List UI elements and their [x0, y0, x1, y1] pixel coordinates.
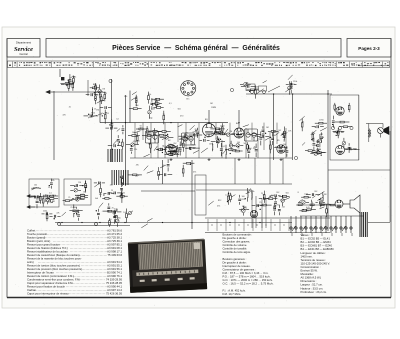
wire — [167, 131, 171, 133]
wire — [283, 136, 285, 141]
wire — [320, 126, 324, 128]
wire — [136, 141, 138, 145]
resistor R37 — [217, 131, 221, 133]
wire — [129, 91, 131, 123]
resistor R36 — [220, 133, 224, 135]
wire — [122, 132, 124, 134]
wire — [191, 162, 194, 164]
wire — [333, 131, 336, 133]
wire — [246, 192, 251, 194]
junction — [170, 152, 171, 153]
wire — [221, 140, 223, 158]
wire — [311, 207, 313, 210]
capacitor C17 — [196, 132, 199, 133]
wire — [312, 139, 314, 142]
svg-text:47k: 47k — [292, 84, 295, 86]
capacitor C91 — [257, 204, 258, 207]
wire — [257, 89, 264, 94]
wire — [111, 193, 114, 195]
svg-text:Pièces Service — Schéma géné: Pièces Service — Schéma général — Généra… — [112, 45, 280, 52]
wire — [42, 195, 44, 198]
wire — [46, 212, 48, 215]
wire — [117, 145, 121, 147]
resistor R18 — [155, 101, 157, 105]
resistor R31 — [150, 144, 152, 148]
wire — [317, 148, 319, 151]
wire — [268, 130, 271, 132]
wire — [368, 221, 390, 223]
scattered value labels — [38, 96, 298, 208]
resistor R48 — [255, 90, 257, 94]
wire — [282, 195, 284, 198]
resistor R82 — [326, 209, 328, 213]
junction — [73, 213, 74, 214]
trimmer C84 — [116, 219, 120, 223]
wire — [276, 132, 279, 135]
junction — [170, 122, 171, 123]
wire — [42, 203, 44, 207]
resistor R54 — [348, 105, 350, 109]
junction — [204, 137, 205, 138]
svg-text:0,1: 0,1 — [280, 199, 283, 201]
wire — [95, 92, 97, 96]
wire — [343, 138, 345, 141]
junction — [99, 94, 100, 95]
resistor R23 — [139, 128, 143, 130]
junction — [321, 154, 322, 155]
wire — [201, 148, 208, 153]
wire — [46, 198, 50, 200]
tube B7 EZ40 — [250, 210, 257, 217]
svg-text:F.M. 10,7 Mc/s.: F.M. 10,7 Mc/s. — [223, 292, 242, 296]
resistor R52 — [319, 122, 323, 124]
wire — [99, 94, 101, 99]
junction — [149, 143, 150, 144]
wire — [323, 202, 325, 204]
resistor R40 — [247, 145, 249, 149]
capacitor C31 — [259, 138, 262, 139]
wire — [337, 128, 339, 131]
wire — [281, 133, 288, 136]
wire — [144, 166, 149, 171]
wire — [348, 126, 352, 128]
trimmer C40 — [216, 140, 220, 144]
wire — [231, 195, 235, 198]
wire — [339, 126, 343, 128]
junction — [249, 91, 250, 92]
wire — [54, 198, 58, 200]
wire — [128, 174, 133, 176]
oscillator box 1 — [29, 179, 59, 207]
trimmer C16 — [165, 136, 169, 140]
wire — [78, 210, 80, 213]
capacitor C83 — [114, 216, 117, 217]
svg-text:1M: 1M — [246, 83, 249, 85]
junction — [140, 127, 141, 128]
wire — [93, 115, 98, 117]
capacitor C20 — [179, 148, 182, 149]
resistor R89 — [158, 171, 160, 175]
wire — [113, 140, 117, 144]
svg-text:A0 1368 (4,5 W.): A0 1368 (4,5 W.) — [301, 276, 322, 280]
wire — [220, 152, 222, 156]
coil L12 — [247, 192, 249, 198]
wire — [149, 114, 151, 118]
wire — [248, 154, 250, 158]
svg-text:O.C. : 16,5 — 52,2 m = 18,2 ..: O.C. : 16,5 — 52,2 m = 18,2 ... 5,75 Mc/… — [223, 282, 274, 286]
capacitor C29 — [280, 146, 281, 149]
wire — [70, 200, 73, 202]
capacitor C64 — [36, 201, 39, 202]
wire — [60, 83, 65, 85]
open junction — [95, 223, 98, 226]
resistor R68 — [121, 194, 123, 198]
capacitor C53 — [313, 144, 316, 145]
resistor R63 — [65, 200, 69, 202]
wire — [225, 145, 227, 150]
svg-text:8: 8 — [298, 192, 299, 194]
wire — [222, 134, 226, 136]
trimmer C63 — [46, 198, 50, 202]
wire — [103, 210, 108, 212]
wire — [288, 75, 293, 80]
junction — [336, 132, 337, 133]
junction — [116, 209, 117, 210]
wire — [301, 127, 303, 131]
resistor R67 — [100, 188, 102, 192]
wire — [172, 147, 174, 149]
resistor R50 — [301, 123, 303, 127]
svg-text:0,1: 0,1 — [49, 192, 52, 194]
wire — [190, 125, 195, 130]
resistor R69 — [120, 195, 124, 197]
wire — [341, 130, 345, 132]
resistor R2 — [100, 97, 102, 101]
junction — [260, 209, 261, 210]
svg-text:A3 997 14.2: A3 997 14.2 — [107, 288, 122, 292]
svg-text:R12: R12 — [242, 199, 245, 201]
junction — [120, 176, 121, 177]
svg-text:75 246 28.05: 75 246 28.05 — [106, 281, 123, 285]
wire — [76, 213, 78, 215]
svg-text:Service: Service — [14, 46, 33, 53]
wire — [164, 154, 169, 156]
svg-text:De gauche à droite :: De gauche à droite : — [223, 236, 248, 240]
wire — [214, 131, 217, 133]
wire — [220, 141, 225, 143]
wire — [127, 211, 133, 216]
loudspeaker LS1 — [378, 127, 390, 138]
wire — [326, 205, 328, 209]
junction — [191, 222, 192, 223]
wire — [322, 192, 324, 195]
wire — [315, 194, 320, 196]
capacitor C92 — [264, 197, 265, 200]
wire — [255, 85, 257, 89]
resistor R43 — [229, 149, 233, 151]
resistor R44 — [284, 131, 286, 135]
capacitor C15 — [161, 148, 162, 151]
svg-text:25: 25 — [130, 146, 132, 148]
wire — [265, 137, 271, 140]
resistor R78 — [230, 195, 232, 199]
wire — [348, 150, 350, 153]
capacitor C80 — [77, 215, 80, 216]
wire — [146, 126, 148, 129]
junction — [103, 100, 104, 101]
wire — [104, 92, 106, 95]
wire — [334, 109, 336, 111]
junction — [283, 132, 284, 133]
wire — [301, 119, 303, 123]
wire — [189, 134, 193, 136]
wire — [269, 149, 271, 153]
svg-text:0,1: 0,1 — [169, 103, 172, 105]
junction — [112, 149, 113, 150]
wire — [161, 106, 164, 108]
wire — [36, 196, 38, 200]
capacitor C68 — [84, 186, 87, 187]
wire — [348, 143, 350, 146]
wire — [94, 182, 101, 187]
svg-text:Pages 2-3: Pages 2-3 — [358, 46, 380, 51]
capacitor C88 — [274, 202, 277, 203]
wire — [223, 150, 226, 154]
wire — [158, 167, 160, 171]
wire — [298, 201, 301, 203]
wire — [102, 182, 105, 184]
svg-text:25: 25 — [172, 148, 174, 150]
svg-text:1400 mm.: 1400 mm. — [301, 254, 313, 258]
wire — [389, 131, 391, 222]
wire — [141, 224, 148, 228]
junction — [327, 93, 328, 94]
ground — [238, 158, 241, 161]
wire — [54, 91, 100, 93]
svg-text:Ressort pour fixation de boucl: Ressort pour fixation de boucle — [27, 285, 65, 289]
resistor R86 — [182, 169, 184, 173]
junction — [82, 185, 83, 186]
coil L11 — [241, 208, 247, 210]
wire — [262, 133, 264, 135]
wire — [263, 199, 265, 203]
wire — [169, 136, 173, 138]
capacitor C74 — [107, 207, 110, 208]
wire — [50, 186, 52, 189]
svg-text:C4: C4 — [48, 187, 50, 189]
trimmer C26 — [184, 134, 188, 138]
svg-text:220k: 220k — [293, 81, 297, 83]
capacitor C10 — [110, 124, 113, 125]
wire — [259, 197, 262, 199]
wire — [312, 196, 315, 198]
wire — [180, 135, 186, 139]
junction — [282, 134, 283, 135]
wire — [117, 135, 119, 138]
svg-text:0,1: 0,1 — [223, 146, 226, 148]
wire — [57, 215, 60, 217]
wire — [197, 128, 199, 131]
svg-text:1M: 1M — [38, 202, 41, 204]
wire — [260, 205, 264, 207]
wire — [99, 85, 101, 90]
wire — [254, 158, 256, 184]
wire — [217, 144, 219, 148]
wire — [210, 128, 215, 130]
wire — [232, 144, 235, 146]
header title box — [46, 39, 341, 58]
svg-text:R12: R12 — [277, 204, 280, 206]
junction — [74, 186, 75, 187]
svg-text:4700: 4700 — [75, 212, 79, 214]
wire — [126, 144, 130, 146]
svg-text:Touche poussoir: Touche poussoir — [27, 232, 47, 236]
svg-text:Bouton (grand): Bouton (grand) — [27, 236, 45, 240]
wire — [31, 196, 36, 198]
wire — [311, 209, 316, 211]
wire — [247, 197, 249, 202]
svg-text:47k: 47k — [136, 165, 139, 167]
svg-text:5k6: 5k6 — [286, 193, 289, 195]
resistor R10 — [73, 78, 75, 82]
wire — [257, 204, 262, 206]
wire — [69, 74, 71, 78]
coil L6 — [225, 149, 227, 155]
junction — [273, 93, 274, 94]
wire — [271, 195, 274, 197]
aerial arrow 2 — [27, 206, 35, 209]
wire — [292, 94, 294, 160]
wire — [68, 75, 74, 80]
svg-text:4700: 4700 — [192, 131, 196, 133]
wire — [42, 213, 45, 215]
wire — [108, 225, 110, 227]
svg-text:0,05: 0,05 — [176, 148, 180, 150]
svg-text:25: 25 — [135, 176, 137, 178]
svg-text:4700: 4700 — [316, 141, 320, 143]
wire — [176, 153, 178, 157]
wire — [117, 129, 120, 132]
capacitor C36 — [237, 132, 238, 135]
capacitor C39 — [283, 136, 286, 137]
wire — [141, 190, 195, 192]
resistor R71 — [105, 198, 109, 200]
wire — [255, 152, 257, 157]
wire — [105, 127, 109, 129]
wire — [104, 99, 106, 102]
junction — [111, 122, 112, 123]
IF transformer S3 — [245, 129, 258, 141]
capacitor C22 — [174, 150, 175, 153]
svg-text:10k: 10k — [148, 94, 151, 96]
socket pins row — [331, 126, 353, 129]
svg-text:50: 50 — [163, 114, 165, 116]
wire — [76, 207, 78, 209]
wire — [302, 209, 307, 211]
wire — [230, 141, 232, 144]
wire — [108, 218, 110, 220]
resistor R19 — [157, 107, 161, 109]
wire — [150, 148, 152, 153]
svg-text:100: 100 — [124, 96, 127, 98]
capacitor C85 — [114, 211, 115, 214]
wire — [125, 218, 127, 223]
trimmer C35 — [226, 133, 230, 137]
wire — [195, 147, 200, 149]
capacitor C43 — [291, 83, 292, 86]
svg-text:F.I. : A.M. 452 kc/s.: F.I. : A.M. 452 kc/s. — [223, 289, 246, 293]
wire — [183, 162, 186, 164]
svg-text:Ressort de pression (bloc touc: Ressort de pression (bloc touches pousso… — [27, 267, 82, 271]
junction — [220, 139, 221, 140]
wire — [177, 150, 181, 152]
tube B5 EABC80 — [277, 145, 285, 153]
junction — [81, 222, 82, 223]
svg-text:100: 100 — [73, 207, 76, 209]
wire — [164, 123, 166, 158]
svg-text:Boutons généraux :: Boutons généraux : — [223, 257, 247, 261]
resistor R56 — [343, 126, 347, 128]
svg-text:A3 991 08.1: A3 991 08.1 — [107, 246, 122, 250]
wire — [52, 200, 55, 202]
trimmer C95 — [302, 201, 306, 205]
resistor R32 — [162, 131, 166, 133]
wire — [146, 133, 148, 136]
trimmer C58 — [342, 141, 346, 145]
wire — [177, 123, 179, 142]
svg-text:R12: R12 — [122, 183, 125, 185]
wire — [152, 135, 157, 137]
wire — [104, 110, 106, 115]
trimmer C12 — [148, 110, 152, 114]
wire — [69, 209, 73, 211]
wire — [129, 108, 133, 110]
wire — [132, 92, 137, 95]
resistor R38 — [252, 134, 256, 136]
resistor R70 — [122, 179, 124, 183]
wire — [366, 123, 383, 125]
svg-text:0,1: 0,1 — [194, 145, 197, 147]
capacitor C54 — [320, 137, 323, 138]
wire — [125, 183, 292, 185]
wire — [46, 195, 48, 197]
junction — [162, 152, 163, 153]
wire — [37, 196, 40, 198]
wire — [262, 126, 264, 128]
resistor R66 — [80, 194, 84, 196]
wire — [276, 123, 278, 144]
capacitor C61 — [49, 200, 50, 203]
wire — [68, 81, 70, 84]
resistor R25 — [193, 134, 197, 136]
svg-text:0,05: 0,05 — [114, 208, 118, 210]
wire — [143, 128, 146, 130]
svg-text:47k: 47k — [51, 180, 54, 182]
resistor R5 — [104, 115, 106, 119]
wire — [241, 207, 246, 212]
svg-text:Musicalité :: Musicalité : — [301, 272, 315, 276]
junction — [94, 92, 95, 93]
svg-text:25: 25 — [68, 197, 70, 199]
resistor R8 — [68, 84, 70, 88]
svg-text:Profondeur : 23,2 cm.: Profondeur : 23,2 cm. — [301, 290, 328, 294]
wire — [275, 196, 277, 200]
trimmer C89 — [242, 209, 246, 213]
connector blob — [61, 77, 64, 80]
wire — [164, 147, 166, 149]
svg-text:100: 100 — [168, 144, 171, 146]
svg-text:25: 25 — [302, 121, 304, 123]
